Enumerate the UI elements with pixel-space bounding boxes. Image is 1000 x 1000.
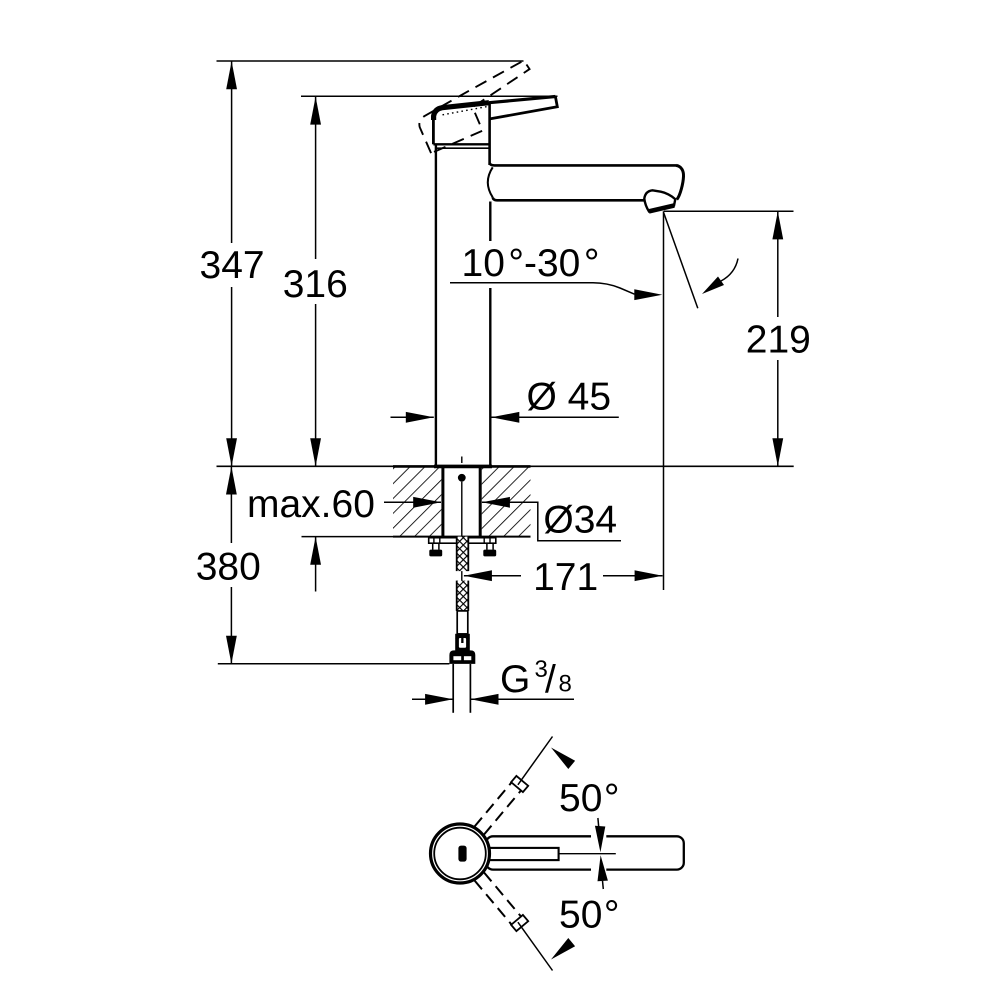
handle top view: [487, 848, 559, 860]
neck right edge: [488, 103, 491, 165]
tangential arrows 50deg: [551, 748, 575, 960]
swivel line: [664, 213, 698, 309]
connector: [455, 638, 470, 651]
arrow 219 bottom: [772, 438, 783, 466]
dark band: [455, 634, 470, 638]
leader d34: [482, 502, 621, 541]
dashed handle (lifted position): [412, 60, 545, 153]
svg-text:50°: 50°: [559, 777, 620, 820]
shank walls: [441, 466, 444, 536]
center arrows: [593, 818, 608, 889]
faucet body front view: [433, 97, 683, 466]
ext line spout tip vertical: [663, 211, 665, 590]
ext line max60 bottom: [302, 536, 394, 538]
spout right end: [676, 165, 684, 199]
svg-text:347: 347: [200, 244, 265, 287]
arrow 171 left: [464, 570, 492, 581]
connector nut: [449, 650, 475, 664]
svg-text:380: 380: [196, 546, 261, 589]
hatch bottom line: [393, 536, 531, 538]
dim line 380: [230, 466, 232, 663]
arrowheads: [226, 61, 783, 704]
dim line 171: [464, 575, 663, 577]
svg-text:Ø34: Ø34: [543, 498, 617, 541]
arrow G38 left: [425, 694, 453, 705]
stem max60 arrow: [315, 537, 317, 592]
arrowhead swivel curved: [702, 277, 724, 295]
svg-text:8: 8: [559, 671, 572, 698]
G38 pipe: [452, 664, 454, 713]
dim line 219: [777, 211, 779, 466]
ext line 316: [301, 95, 558, 97]
arrow max60: [413, 497, 441, 508]
junction bulge arc: [488, 167, 493, 197]
dashed handle rotated up 50: [475, 782, 522, 925]
neck top ring line: [436, 147, 489, 149]
ext line spout tip horizontal: [664, 210, 794, 212]
aerator: [644, 190, 675, 211]
svg-text:G: G: [500, 658, 530, 701]
hose sleeve: [457, 611, 468, 634]
centerline: [559, 853, 616, 855]
column left edge: [435, 144, 437, 465]
svg-text:50°: 50°: [559, 893, 620, 936]
spout bottom line: [493, 197, 645, 200]
ext line 380 bottom: [218, 663, 450, 665]
gaps in spout edges for arrows: [591, 833, 606, 840]
arrow d45 left: [406, 412, 434, 423]
mounting flange: [429, 538, 496, 544]
hatch left block: [393, 467, 441, 537]
lever: [489, 97, 555, 103]
svg-text:/: /: [545, 659, 556, 702]
hatch right block: [482, 467, 531, 537]
arrow 219 top: [772, 211, 783, 239]
counter / hatch / shank: [217, 457, 794, 713]
arrow 347 top: [226, 61, 237, 89]
handle end caps: [511, 776, 528, 931]
dim line 316: [315, 96, 317, 466]
leader line 10-30 drawn over halo: [450, 283, 635, 294]
svg-text:219: 219: [746, 318, 811, 361]
left stud + nut: [432, 543, 434, 550]
TOP VIEW: [431, 737, 684, 971]
arrow 316 bottom: [310, 438, 321, 466]
dim line max60: [384, 501, 441, 503]
arrow 171 right: [635, 570, 663, 581]
arrow 316 top: [310, 97, 321, 125]
ext line top 347: [217, 60, 524, 62]
svg-text:171: 171: [533, 556, 598, 599]
arrow 380 top: [226, 467, 237, 495]
dotted seam: [443, 107, 488, 115]
arrow d34: [482, 497, 510, 508]
arrow G38 right: [471, 694, 499, 705]
angle ext lines: [518, 737, 553, 785]
centerline + dot: [461, 457, 463, 464]
dim line d45: [391, 416, 434, 418]
column right edge below spout: [489, 202, 491, 466]
svg-text:max.60: max.60: [247, 483, 375, 526]
text labels with white halo: [190, 241, 815, 702]
dim line G38: [412, 698, 453, 700]
curved arrow arc: [721, 259, 738, 282]
arrow d45 right: [491, 412, 519, 423]
svg-text:Ø 45: Ø 45: [527, 375, 612, 418]
arrow max60 lower: [310, 537, 321, 565]
svg-text:10°-30°: 10°-30°: [462, 242, 600, 285]
svg-text:316: 316: [283, 263, 348, 306]
spout top view: [486, 836, 684, 869]
body circle: [431, 824, 490, 883]
arrow 347 bottom: [226, 438, 237, 466]
cartridge blob: [458, 846, 466, 862]
braided hose lower: [457, 581, 469, 611]
arrow 380 bottom: [226, 636, 237, 664]
right stud + nut: [486, 543, 488, 550]
spout top line: [490, 163, 676, 165]
dim line 347: [231, 61, 233, 466]
braided hose upper: [457, 537, 469, 572]
counter top line: [217, 465, 794, 467]
handle head: [434, 103, 489, 120]
